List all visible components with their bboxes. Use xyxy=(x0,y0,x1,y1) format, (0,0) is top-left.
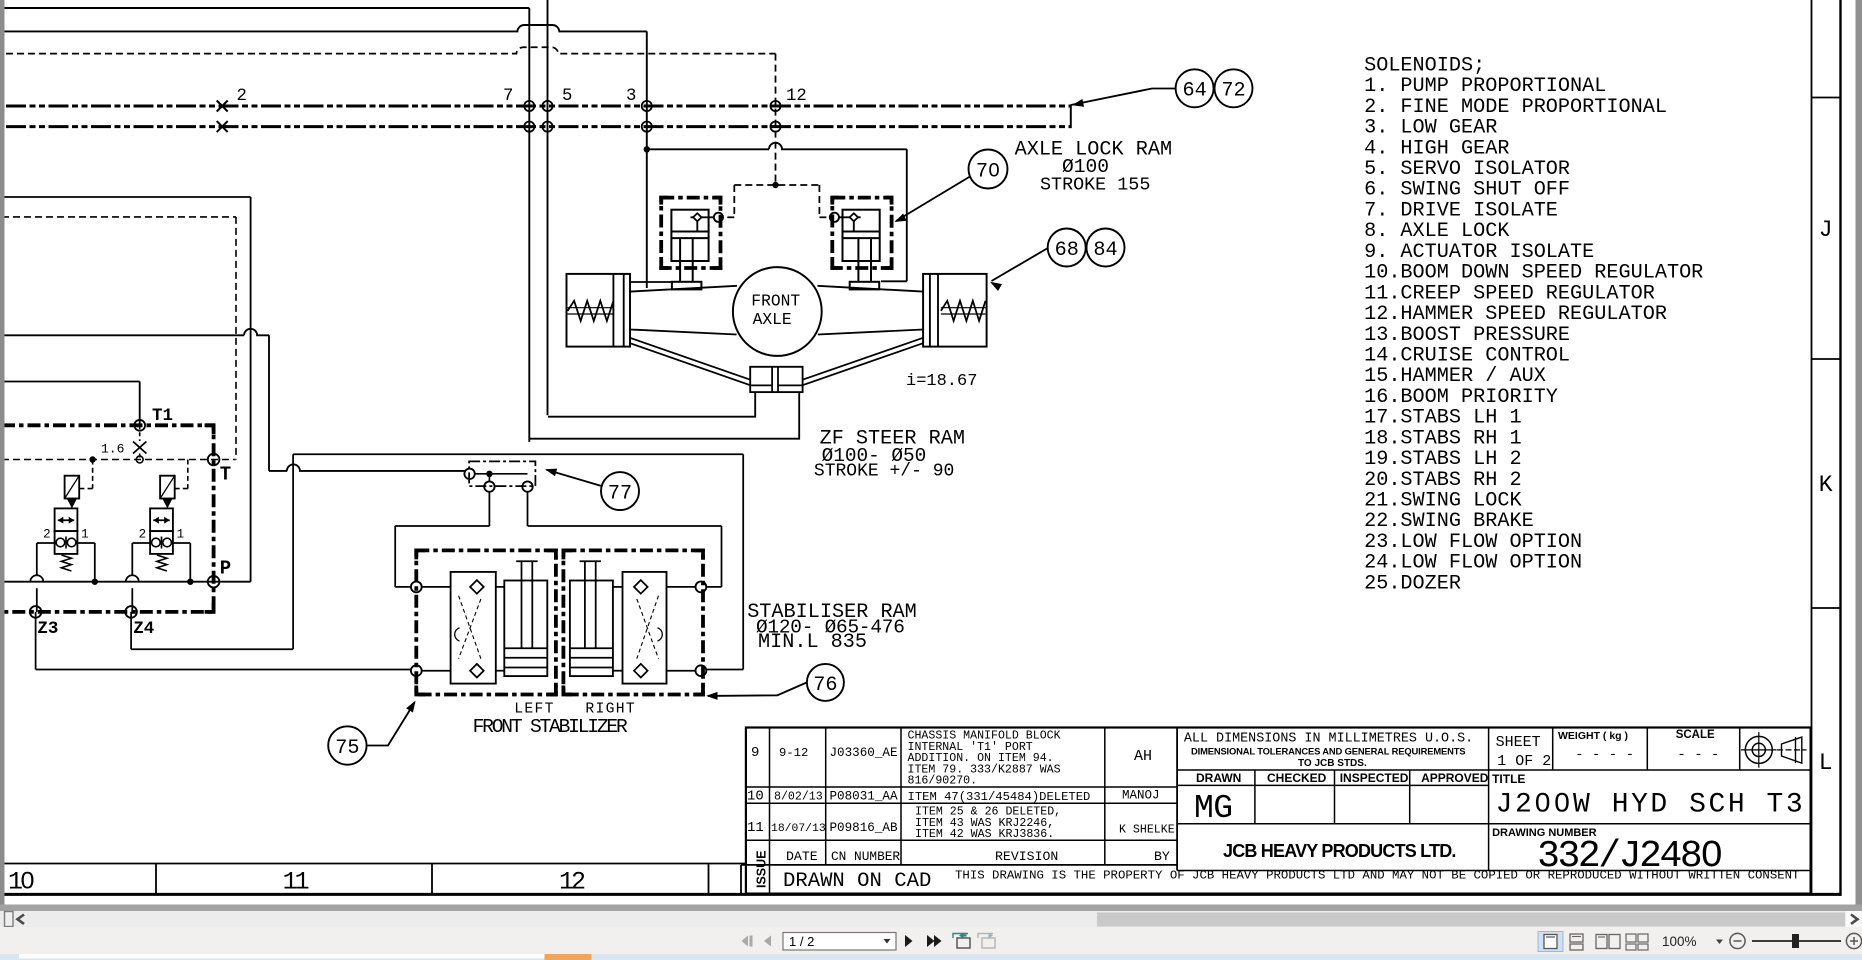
horizontal scrollbar track xyxy=(0,911,1862,927)
svg-text:CHECKED: CHECKED xyxy=(1267,771,1327,785)
right trunnion piston l xyxy=(929,274,931,347)
wire to right stab top xyxy=(528,525,722,527)
left trunnion rod line 2 xyxy=(568,313,614,315)
border zone row top xyxy=(0,863,746,865)
border zone divider y=97.5 xyxy=(1812,97,1841,99)
node manifold tee xyxy=(486,471,492,477)
inspected divider xyxy=(1334,770,1336,824)
valve 1 check section xyxy=(55,531,78,554)
svg-text:J: J xyxy=(1819,217,1833,243)
zoom out button xyxy=(1730,933,1745,948)
svg-text:8/02/13: 8/02/13 xyxy=(774,791,823,804)
solenoid bus line 2 xyxy=(6,125,1071,128)
svg-text:1 OF 2: 1 OF 2 xyxy=(1497,753,1551,770)
stabilizer box right xyxy=(563,550,703,694)
stab right rod r xyxy=(595,561,597,648)
svg-text:12: 12 xyxy=(559,868,585,897)
stab right port top xyxy=(696,582,707,593)
svg-text:18/07/13: 18/07/13 xyxy=(771,823,826,835)
revision header bottom xyxy=(741,864,1177,866)
left trunnion piston l xyxy=(612,274,614,347)
steer ram piston r xyxy=(778,384,803,386)
drawn strip bottom xyxy=(1177,784,1489,786)
projection symbol inner circle xyxy=(1752,743,1765,756)
nav first-page button (disabled) xyxy=(742,936,749,947)
zero-dot patch J200W xyxy=(1540,799,1545,806)
arrowhead 76 xyxy=(706,692,718,700)
right trunnion piston r xyxy=(937,274,939,347)
balloon 64 xyxy=(1176,69,1214,107)
svg-text:Z3: Z3 xyxy=(37,619,58,639)
svg-text:i=18.67: i=18.67 xyxy=(906,372,977,391)
svg-text:T1: T1 xyxy=(152,406,173,426)
node bus2 junction x=775.5 xyxy=(770,122,780,132)
wire stub to right ram foot xyxy=(881,280,907,282)
wire pump line xyxy=(2,196,251,198)
title row bottom xyxy=(1177,823,1811,825)
svg-text:10.BOOM DOWN SPEED REGULATOR: 10.BOOM DOWN SPEED REGULATOR xyxy=(1364,262,1703,285)
wire T1 drop xyxy=(139,382,141,426)
manifold dashed boundary top xyxy=(2,216,236,218)
svg-text:16.BOOM PRIORITY: 16.BOOM PRIORITY xyxy=(1364,386,1558,409)
wire Z4 riser xyxy=(292,454,294,649)
stab left rod l xyxy=(521,561,523,648)
svg-text:3. LOW GEAR: 3. LOW GEAR xyxy=(1364,117,1497,140)
pilot dashed header xyxy=(734,184,819,186)
steer ram line B xyxy=(529,392,799,439)
svg-text:1. PUMP PROPORTIONAL: 1. PUMP PROPORTIONAL xyxy=(1364,75,1606,98)
valve 1 body xyxy=(55,508,78,531)
ram right foot xyxy=(850,282,880,290)
nav prev-view icon xyxy=(957,938,970,948)
pilot dash to valve1 xyxy=(92,460,94,489)
stab left pilot cross dashes xyxy=(459,596,481,659)
port T1 xyxy=(134,420,145,431)
svg-text:J03360_AE: J03360_AE xyxy=(830,746,898,760)
valve 2 solenoid diagonal xyxy=(160,476,175,499)
port Z3 xyxy=(30,606,42,618)
balloon 72 xyxy=(1215,69,1253,107)
pilot dashed stub left xyxy=(724,216,734,218)
svg-text:J200W HYD SCH T3: J200W HYD SCH T3 xyxy=(1496,790,1806,821)
manifold left port xyxy=(464,469,474,479)
svg-text:6. SWING SHUT OFF: 6. SWING SHUT OFF xyxy=(1364,179,1570,202)
svg-text:9. ACTUATOR ISOLATE: 9. ACTUATOR ISOLATE xyxy=(1364,241,1594,264)
right disclaimer top xyxy=(1177,870,1811,872)
svg-text:25.DOZER: 25.DOZER xyxy=(1364,572,1461,595)
svg-text:11.CREEP SPEED REGULATOR: 11.CREEP SPEED REGULATOR xyxy=(1364,282,1655,305)
nav last button xyxy=(927,935,935,947)
arrowhead 70 xyxy=(895,214,907,223)
viewer right gray edge xyxy=(1856,0,1862,911)
leader to right trunnion xyxy=(992,248,1048,281)
border zone divider x=708.5 xyxy=(708,864,710,895)
svg-text:K SHELKE: K SHELKE xyxy=(1119,824,1175,837)
stab left rod top xyxy=(516,560,537,562)
port T xyxy=(208,454,220,466)
scrollbar left arrow xyxy=(18,915,25,924)
projection crosshair v xyxy=(1758,732,1760,768)
zoom in button xyxy=(1846,933,1861,948)
node crossing marker 2 lower xyxy=(217,121,228,132)
stab right check diamond bottom xyxy=(634,664,648,678)
ram right pilot port xyxy=(830,213,839,222)
svg-text:23.LOW FLOW OPTION: 23.LOW FLOW OPTION xyxy=(1364,531,1582,554)
arrowhead 68/84 xyxy=(990,282,1002,291)
svg-text:FRONT: FRONT xyxy=(751,292,800,311)
svg-text:DATE: DATE xyxy=(786,849,818,864)
valve2 port2 wire xyxy=(132,542,150,544)
wire port1 drop xyxy=(488,492,490,526)
svg-text:INSPECTED: INSPECTED xyxy=(1340,771,1409,785)
tie rod left inner xyxy=(630,343,750,385)
svg-text:DIMENSIONAL TOLERANCES AND GEN: DIMENSIONAL TOLERANCES AND GENERAL REQUI… xyxy=(1191,745,1465,756)
stab right pilot arc xyxy=(658,628,663,641)
wire Z4 drop right xyxy=(742,454,744,669)
left trunnion cylinder xyxy=(567,274,631,347)
title block frame xyxy=(746,728,1811,894)
revision col x=825.7 xyxy=(825,728,827,865)
svg-text:5: 5 xyxy=(562,87,572,106)
border zone divider x=156 xyxy=(155,864,157,895)
leader 75 xyxy=(367,703,415,746)
orifice feed dash xyxy=(139,425,141,441)
valve 1 spring xyxy=(61,555,71,571)
valve 2 check section xyxy=(150,531,173,554)
stab left pilot arc xyxy=(455,628,460,641)
svg-text:75: 75 xyxy=(335,737,359,760)
manifold dashed boundary bottom xyxy=(2,459,236,461)
layout single-page icon (active) xyxy=(1538,932,1563,952)
pilot dashed vertical drop xyxy=(775,54,777,185)
svg-text:- - - -: - - - - xyxy=(1575,747,1634,763)
svg-text:SCALE: SCALE xyxy=(1676,729,1715,741)
axle lock ram box right xyxy=(832,198,891,268)
svg-text:MIN.L 835: MIN.L 835 xyxy=(758,631,867,654)
revision row1 bottom xyxy=(746,786,1177,788)
svg-text:TITLE: TITLE xyxy=(1492,772,1525,786)
svg-text:AXLE: AXLE xyxy=(753,310,792,329)
svg-text:72: 72 xyxy=(1221,80,1245,103)
node valve1 port1 to P line xyxy=(92,579,98,585)
port P xyxy=(208,576,220,588)
pilot dashed drop left xyxy=(733,185,735,217)
svg-text:STROKE 155: STROKE 155 xyxy=(1040,175,1150,196)
border zone divider y=359 xyxy=(1812,358,1841,360)
stab left check block xyxy=(451,572,496,684)
stab left cylinder xyxy=(504,581,547,677)
svg-text:1: 1 xyxy=(81,528,89,542)
svg-text:THIS DRAWING IS THE PROPERTY O: THIS DRAWING IS THE PROPERTY OF JCB HEAV… xyxy=(955,869,1799,883)
stab left check diamond top xyxy=(470,580,484,594)
wire vertical drop to front axle xyxy=(646,31,648,288)
svg-text:L: L xyxy=(1819,750,1833,776)
axle arm left top xyxy=(630,286,737,292)
svg-text:12.HAMMER SPEED REGULATOR: 12.HAMMER SPEED REGULATOR xyxy=(1364,303,1667,326)
sheet col divider xyxy=(1488,728,1490,871)
valve 2 body xyxy=(150,508,173,531)
svg-text:2. FINE MODE PROPORTIONAL: 2. FINE MODE PROPORTIONAL xyxy=(1364,96,1667,119)
svg-text:JCB HEAVY PRODUCTS LTD.: JCB HEAVY PRODUCTS LTD. xyxy=(1223,841,1456,861)
valve 1 solenoid diagonal xyxy=(65,476,80,499)
svg-text:15.HAMMER / AUX: 15.HAMMER / AUX xyxy=(1364,365,1546,388)
taskbar strip xyxy=(0,954,1862,960)
valve 2 solenoid xyxy=(160,476,175,499)
manifold bottom port 2 xyxy=(522,481,532,491)
svg-text:19.STABS LH 2: 19.STABS LH 2 xyxy=(1364,448,1522,471)
stab left piston xyxy=(504,647,547,649)
revision col issue xyxy=(769,728,771,894)
stab right piston xyxy=(570,647,613,649)
svg-text:68: 68 xyxy=(1055,239,1079,262)
nav prev button (disabled) xyxy=(764,936,771,947)
tie rod right inner xyxy=(803,343,924,385)
svg-text:ALL DIMENSIONS IN MILLIMETRES: ALL DIMENSIONS IN MILLIMETRES U.O.S. xyxy=(1184,732,1473,747)
scrollbar left grip xyxy=(5,912,14,927)
svg-text:P: P xyxy=(220,558,231,580)
projection col divider xyxy=(1739,728,1741,771)
ram left check diamond xyxy=(693,213,701,221)
svg-text:7. DRIVE ISOLATE: 7. DRIVE ISOLATE xyxy=(1364,199,1558,222)
node pilot tee xyxy=(772,182,778,188)
leader 76 xyxy=(708,682,807,696)
approved divider xyxy=(1409,770,1411,824)
tie rod right outer xyxy=(803,338,924,380)
pilot dashed drop right xyxy=(818,185,820,217)
svg-text:77: 77 xyxy=(608,483,632,506)
svg-text:2: 2 xyxy=(43,528,51,542)
zero-dot patch balloon 70 xyxy=(992,167,996,173)
ram right piston bottom xyxy=(843,237,880,239)
projection cone symbol xyxy=(1782,737,1802,763)
ram left cylinder xyxy=(671,210,708,261)
zf steer ram body xyxy=(750,367,802,392)
leader line to balloons 64 72 xyxy=(1071,89,1176,106)
wire return with hop xyxy=(2,329,269,336)
zero-dot patch zone 10 xyxy=(25,877,30,884)
svg-text:2: 2 xyxy=(237,87,247,106)
orifice 1.6 symbol xyxy=(133,442,146,454)
svg-text:REVISION: REVISION xyxy=(995,849,1058,864)
svg-text:1 / 2: 1 / 2 xyxy=(789,934,814,949)
nav page field xyxy=(783,933,896,951)
node bus1 junction x=547.5 xyxy=(542,101,552,111)
wire Z4 top run xyxy=(293,453,743,455)
svg-text:SHEET: SHEET xyxy=(1496,734,1541,751)
balloon 75 xyxy=(328,726,366,764)
wire pilot drop xyxy=(268,335,270,471)
svg-text:TO JCB STDS.: TO JCB STDS. xyxy=(1298,758,1367,769)
border zone divider x=432 xyxy=(431,864,433,895)
ram right rod l xyxy=(857,238,859,282)
valve1 port2 wire xyxy=(37,542,55,544)
stab right check block xyxy=(623,572,667,684)
stab right port bottom xyxy=(696,665,707,676)
ram right rod r xyxy=(870,238,872,282)
wire axle lock feed right drop xyxy=(906,149,908,281)
layout continuous icon xyxy=(1570,934,1583,942)
wire Z4 drop xyxy=(130,612,132,649)
svg-text:2: 2 xyxy=(139,528,147,542)
right trunnion cylinder xyxy=(923,274,987,347)
svg-text:7: 7 xyxy=(503,87,513,106)
ram right passage drop xyxy=(853,221,855,231)
left trunnion spring xyxy=(568,301,614,321)
svg-text:ITEM 42 WAS KRJ3836.: ITEM 42 WAS KRJ3836. xyxy=(915,828,1054,841)
valve1 port1 wire xyxy=(77,542,94,544)
left trunnion piston r xyxy=(623,274,625,347)
right trunnion rod line 2 xyxy=(941,313,986,315)
scrollbar right button xyxy=(1846,911,1862,927)
wire Z3 run to left stabilizer xyxy=(36,669,411,671)
balloon 84 xyxy=(1087,229,1125,267)
svg-text:DRAWN: DRAWN xyxy=(1196,771,1241,785)
revision/right divider xyxy=(1176,728,1178,871)
svg-text:11: 11 xyxy=(747,820,764,836)
wire pump drop xyxy=(250,197,252,582)
balloon 68 xyxy=(1048,229,1086,267)
ram left rod l xyxy=(679,238,681,282)
svg-text:9-12: 9-12 xyxy=(779,746,808,760)
steer ram rod l xyxy=(771,367,773,392)
wire to 77 manifold xyxy=(269,464,465,470)
balloon 70 xyxy=(969,150,1008,189)
port Z4 xyxy=(125,606,137,618)
wire port2 drop xyxy=(527,492,529,526)
wire Z4 to right stabilizer xyxy=(706,669,743,671)
ram left pilot port xyxy=(714,213,723,222)
svg-text:21.SWING LOCK: 21.SWING LOCK xyxy=(1364,490,1522,513)
wire Z4 run xyxy=(131,648,293,650)
svg-text:P08031_AA: P08031_AA xyxy=(830,790,898,804)
manifold dashed boundary right xyxy=(235,217,237,460)
valve2 port2 hop xyxy=(126,575,139,582)
right top strip bottom xyxy=(1177,769,1811,771)
projection symbol outer circle xyxy=(1745,736,1772,763)
stab left check diamond bottom xyxy=(470,664,484,678)
wire vertical drop left xyxy=(528,8,530,442)
svg-text:12: 12 xyxy=(786,87,807,106)
scrollbar thumb xyxy=(1097,913,1845,927)
svg-text:1: 1 xyxy=(177,528,185,542)
svg-text:9: 9 xyxy=(751,745,759,761)
stab pilot manifold box xyxy=(469,461,535,486)
wire axle lock feed top xyxy=(647,143,907,149)
revision col x=901 xyxy=(900,728,902,865)
right trunnion spring xyxy=(941,301,986,321)
nav next button xyxy=(905,935,913,947)
manifold internal line xyxy=(475,473,528,475)
ram left rod r xyxy=(692,238,694,282)
wire top return line xyxy=(2,7,529,9)
axle arm left bottom xyxy=(630,330,737,335)
zoom slider xyxy=(1752,940,1841,942)
svg-text:ISSUE: ISSUE xyxy=(755,850,769,888)
pilot dashed line top xyxy=(6,47,776,53)
svg-text:- - -: - - - xyxy=(1677,747,1719,763)
valve1 port2 hop xyxy=(30,575,43,582)
svg-text:WEIGHT ( kg ): WEIGHT ( kg ) xyxy=(1558,730,1628,742)
leader to pilot manifold xyxy=(547,470,602,486)
layout two-page icon xyxy=(1596,935,1607,949)
stab right pilot cross dashes xyxy=(637,596,659,659)
axle arm right top xyxy=(818,286,924,292)
svg-text:10: 10 xyxy=(747,789,764,805)
stab right rod top xyxy=(580,560,601,562)
valve 1 solenoid xyxy=(65,476,80,499)
node valve2 port1 to P line xyxy=(187,579,193,585)
svg-text:4. HIGH GEAR: 4. HIGH GEAR xyxy=(1364,137,1509,160)
nav next-view icon (disabled) xyxy=(982,938,995,948)
projection cone axis xyxy=(1777,749,1807,751)
svg-text:11: 11 xyxy=(283,868,309,897)
svg-text:K: K xyxy=(1819,472,1833,498)
wire P supply line xyxy=(2,581,251,583)
wire bus end connector xyxy=(1070,105,1072,129)
node orifice outlet xyxy=(136,456,143,463)
svg-text:FRONT STABILIZER: FRONT STABILIZER xyxy=(473,716,628,738)
border zone divider y=608 xyxy=(1812,607,1841,609)
svg-text:20.STABS RH 2: 20.STABS RH 2 xyxy=(1364,469,1522,492)
manifold bottom port 1 xyxy=(484,481,494,491)
border sheet bottom xyxy=(0,893,1841,896)
svg-text:100%: 100% xyxy=(1662,934,1697,949)
svg-text:8. AXLE LOCK: 8. AXLE LOCK xyxy=(1364,220,1510,243)
manifold bold border xyxy=(2,425,214,612)
stab left rod r xyxy=(531,561,533,648)
leader to right ram xyxy=(896,177,970,222)
stab left port bottom xyxy=(411,665,422,676)
arrowhead 75 xyxy=(406,701,416,713)
svg-text:17.STABS LH 1: 17.STABS LH 1 xyxy=(1364,407,1522,430)
wire Z3 drop xyxy=(35,612,37,670)
steer ram rod r xyxy=(777,367,779,392)
border outer right xyxy=(1839,0,1841,896)
left trunnion rod line 1 xyxy=(568,307,614,309)
node bus2 junction x=529.3 xyxy=(524,122,534,132)
node bus1 junction x=529.3 xyxy=(524,101,534,111)
steer ram line A xyxy=(548,392,755,417)
svg-text:13.BOOST PRESSURE: 13.BOOST PRESSURE xyxy=(1364,324,1570,347)
right trunnion rod line 1 xyxy=(941,307,986,309)
valve 2 spring xyxy=(157,555,167,571)
wire stub left ram foot ledge xyxy=(629,281,671,283)
border inner right xyxy=(1811,0,1813,894)
valve2 port1 wire xyxy=(173,542,190,544)
svg-text:APPROVED: APPROVED xyxy=(1421,771,1489,785)
solenoid bus line 1 xyxy=(6,105,1071,108)
weight col divider xyxy=(1552,728,1554,771)
node bus1 junction x=646.8 xyxy=(642,101,652,111)
svg-text:1.6: 1.6 xyxy=(101,442,124,457)
svg-text:BY: BY xyxy=(1154,849,1170,864)
axle lock ram box left xyxy=(661,198,720,268)
svg-text:Z4: Z4 xyxy=(133,619,154,639)
svg-text:DRAWN ON CAD: DRAWN ON CAD xyxy=(783,870,931,893)
svg-text:ITEM 47(331/45484)DELETED: ITEM 47(331/45484)DELETED xyxy=(908,790,1091,804)
node bus2 junction x=646.8 xyxy=(642,122,652,132)
wire T1 feed xyxy=(2,381,140,383)
svg-text:CN NUMBER: CN NUMBER xyxy=(831,849,900,864)
node junction on drop xyxy=(644,146,650,152)
svg-text:64: 64 xyxy=(1182,80,1206,103)
svg-text:22.SWING BRAKE: 22.SWING BRAKE xyxy=(1364,510,1534,533)
ram left foot xyxy=(672,282,702,290)
bottom row left edge xyxy=(740,865,742,894)
viewer left gray edge xyxy=(0,0,5,927)
svg-text:76: 76 xyxy=(813,674,837,697)
wire long vertical from top xyxy=(547,0,549,415)
